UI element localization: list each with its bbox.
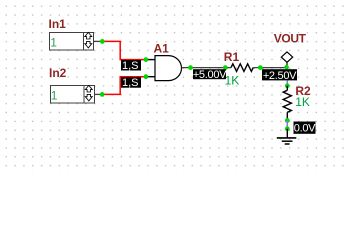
svg-text:1K: 1K (295, 95, 310, 109)
svg-text:1: 1 (51, 89, 58, 103)
svg-text:+2.50V: +2.50V (263, 70, 297, 82)
svg-text:In2: In2 (49, 66, 67, 80)
svg-text:0.0V: 0.0V (294, 123, 316, 135)
svg-text:+5.00V: +5.00V (193, 69, 227, 81)
svg-text:VOUT: VOUT (274, 32, 307, 46)
svg-text:In1: In1 (49, 17, 67, 31)
svg-text:1,S: 1,S (122, 77, 139, 89)
svg-text:R1: R1 (224, 50, 240, 64)
svg-text:1K: 1K (225, 74, 240, 88)
svg-text:1: 1 (50, 36, 57, 50)
svg-text:A1: A1 (154, 41, 170, 55)
svg-text:1,S: 1,S (122, 60, 139, 72)
